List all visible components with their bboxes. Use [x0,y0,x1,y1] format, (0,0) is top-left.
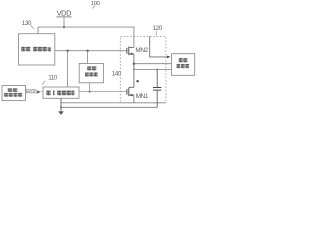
node dot out2 [133,69,135,71]
svg-text:130: 130 [22,20,32,27]
leader tick for 120 [155,31,157,36]
text 전하 line1 [87,66,96,70]
block: power switch box [172,54,195,76]
node dot VDD on rail [63,26,65,28]
MN1 channel bar [128,88,130,97]
MN1 drain tap [129,86,134,88]
ground arrowhead [58,111,64,115]
MN1 gate bar [126,89,128,95]
text 유지부 line2 [85,72,98,76]
block: power supply box (130) [19,34,55,65]
wire down from A to holding box [87,51,89,64]
dashed box 120 [120,36,166,102]
wire bottom rail 1 [61,102,166,104]
svg-text:MN1: MN1 [136,93,149,100]
capacitor bottom lead [156,90,158,107]
MN1 source arrow [129,94,132,97]
text 전력 공급부 [21,47,51,52]
VDD underline [56,16,71,18]
arrowhead DATA [37,90,40,93]
wire node to switch box (lower) [134,68,172,70]
node dot A-driver [66,50,68,52]
MN2 channel bar [128,47,130,56]
wire holding box down to MN1 gate wire [89,83,91,92]
svg-text:100: 100 [91,1,100,7]
wire VDD stub down to rail [63,17,65,27]
MN2 gate bar [126,48,128,54]
wire: driver box to MN1 gate [79,91,127,93]
node dot cap tap [156,69,158,71]
capacitor bottom plate [153,89,161,91]
wire A: power box to MN2 gate [55,50,127,52]
leader tick for 110 [42,81,45,85]
MN2 source arrow [129,53,132,56]
svg-text:VDD: VDD [57,9,73,18]
wire node vertical MN2 source to MN1 drain [133,54,135,87]
capacitor top plate [153,87,161,89]
node dot on MN1 gate wire [89,91,91,93]
wire down from A to driver box [67,51,69,87]
wire DATA stub to box [40,91,43,93]
node dot out1 [133,63,135,65]
svg-text:110: 110 [48,74,58,81]
arrowhead output [167,56,170,59]
text 전원 line1 [179,58,187,62]
MN1 source wire down to rail [133,95,135,103]
capacitor C top lead [156,69,158,87]
block: external micom box [2,86,26,101]
node dot A-hold [86,50,88,52]
block: first driver box (110) [43,87,79,98]
ground wire below driver box [60,98,62,112]
text 스위치 line2 [177,64,189,68]
MN2 drain wire up to rail [133,27,135,47]
wire output arrow path from dashed box top [150,36,168,57]
MN2 source tap [129,53,134,55]
leader tick for 130 [31,25,34,29]
svg-text:120: 120 [153,25,163,32]
svg-text:MN2: MN2 [135,47,148,54]
leader tick for 100 [93,6,95,9]
wire rail left end down to power box [37,27,39,34]
text 마이컴부 line2 [4,93,22,97]
node dot stray (scan artifact near node wire) [136,80,138,82]
block: charge holding box [79,64,103,83]
text 제 1 구동부 [46,91,74,96]
MN2 drain tap [129,46,134,48]
wire bottom rail 2 [61,106,157,108]
wire node to switch box (upper) [134,63,172,65]
MN1 source tap [129,94,134,96]
wire DATA arrow [26,92,38,94]
text 외부 line1 [8,88,17,92]
wire top VDD rail [38,26,134,28]
node dot ground-rail2 [60,106,62,108]
